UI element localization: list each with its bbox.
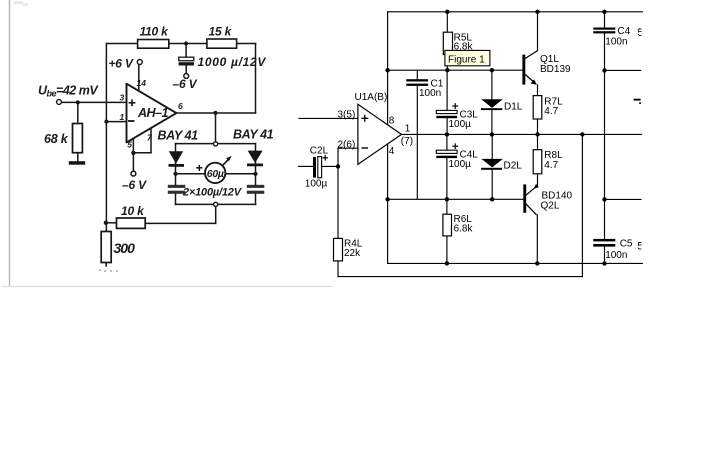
junction dots right — [336, 10, 607, 266]
svg-text:6: 6 — [178, 101, 183, 111]
svg-text:AH–1: AH–1 — [137, 106, 169, 120]
resistor 110k — [138, 40, 169, 49]
rectifier box wires — [106, 144, 256, 266]
wire Q1L emitter to R7L — [537, 85, 539, 96]
node y199 pin4 — [385, 197, 389, 201]
svg-text:10 k: 10 k — [121, 204, 145, 218]
node box top junction circle — [214, 142, 218, 146]
wire pin5 stub — [132, 135, 134, 153]
svg-text:D1L: D1L — [504, 102, 523, 113]
scan smudge top-left — [14, 1, 23, 4]
wire base rail y70 — [388, 69, 523, 71]
wire C4L bottom lead — [446, 158, 448, 199]
wire pin7 stub — [150, 126, 152, 153]
transistor Q2L — [523, 184, 526, 212]
svg-text:100µ: 100µ — [449, 119, 472, 130]
plus sign C4L — [452, 143, 458, 149]
svg-text:2(6): 2(6) — [338, 139, 356, 150]
wire meter left — [176, 173, 205, 175]
scan page edge vertical — [9, 0, 11, 286]
svg-text:–6 V: –6 V — [122, 178, 147, 192]
node y199 C4L — [445, 197, 449, 201]
diode BAY41 left — [169, 151, 183, 163]
node y263 R6L — [445, 261, 449, 265]
node divider junction — [184, 41, 188, 45]
resistor R8L — [533, 150, 542, 174]
capacitor 2x100u left plates — [168, 185, 186, 194]
node box bottom junction circle — [214, 202, 218, 206]
wire R6L top lead — [446, 199, 448, 214]
wire output rail — [401, 133, 641, 135]
op-amp AH-1 — [127, 84, 177, 143]
svg-text:110 k: 110 k — [140, 25, 170, 39]
svg-text:BAY 41: BAY 41 — [233, 127, 274, 141]
wire bootstrap vertical x582 — [581, 134, 583, 276]
svg-text:C4: C4 — [617, 26, 630, 37]
wire 68k bottom lead — [77, 153, 79, 162]
wire D1L bottom lead — [491, 110, 493, 134]
node y199 speaker — [602, 197, 606, 201]
svg-text:4: 4 — [389, 146, 395, 157]
wire output to rectifier box — [215, 113, 217, 142]
node y199 D2L — [490, 197, 494, 201]
svg-text:15 k: 15 k — [209, 25, 233, 39]
resistor 15k — [207, 39, 237, 48]
svg-text:+6 V: +6 V — [109, 57, 134, 71]
wire noninverting input 3(5) — [299, 117, 358, 119]
capacitor 1000u/12V plates — [179, 57, 194, 61]
op-amp minus sign — [362, 147, 369, 149]
svg-text:Figure 1: Figure 1 — [448, 55, 485, 66]
terminal -6V (top) — [184, 74, 189, 79]
node meter left junction — [173, 172, 177, 176]
wire 68k top lead — [77, 102, 79, 123]
capacitor C1 plates — [406, 79, 428, 86]
wire C2L left — [299, 165, 313, 167]
wire R8L top lead — [537, 134, 539, 149]
svg-text:4.7: 4.7 — [544, 160, 558, 171]
resistor 68k — [73, 124, 83, 153]
wire cap branch from divider — [185, 44, 187, 58]
svg-text:5: 5 — [127, 139, 132, 149]
wire C2L right — [322, 165, 338, 167]
node output junction — [213, 111, 217, 115]
svg-text:–6 V: –6 V — [173, 77, 198, 91]
wire R7L bottom lead — [537, 119, 539, 134]
meter 60u circle — [205, 163, 225, 183]
svg-text:8: 8 — [389, 116, 395, 127]
svg-text:22k: 22k — [344, 248, 361, 259]
wire box right — [255, 144, 257, 185]
left labels — [38, 25, 274, 257]
svg-text:100µ: 100µ — [449, 159, 472, 170]
svg-text:BAY 41: BAY 41 — [158, 129, 199, 143]
terminal +6V — [137, 60, 142, 65]
node input junction — [76, 100, 80, 104]
svg-text:1: 1 — [405, 124, 411, 135]
wire noninverting input — [61, 101, 126, 103]
wire box top — [176, 143, 256, 145]
svg-text:C2L: C2L — [310, 146, 329, 157]
Figure 1 tooltip — [445, 50, 490, 65]
wire pin8 vertical — [387, 12, 389, 125]
node out D1L-D2L — [490, 132, 494, 136]
op-amp plus sign — [361, 115, 368, 122]
node out R7L-R8L — [535, 132, 539, 136]
wire R8L bottom lead — [537, 174, 539, 186]
wire Q2L collector vertical — [536, 215, 538, 264]
svg-text:100n: 100n — [605, 250, 627, 261]
svg-text:6.8k: 6.8k — [454, 224, 474, 235]
node top rail R5L — [445, 10, 449, 14]
diode BAY41 right — [248, 151, 263, 163]
svg-text:3(5): 3(5) — [338, 110, 356, 121]
ground symbol cut — [634, 99, 641, 101]
wire inverting input 2(6) — [337, 148, 339, 166]
wire bootstrap bottom rail — [338, 276, 582, 278]
wire speaker column x604 — [604, 12, 606, 28]
svg-text:1: 1 — [120, 112, 125, 122]
svg-text:3: 3 — [120, 92, 125, 102]
wire R4L column — [337, 166, 339, 238]
RIGHT SCHEMATIC (crisp) — [299, 12, 643, 277]
ground — [69, 161, 85, 165]
terminal -6V (bottom) — [131, 171, 136, 176]
node pin1 junction — [104, 120, 108, 124]
wire box bottom to 10k — [215, 207, 217, 224]
resistor R5L — [443, 32, 452, 54]
op-amp U1A(B) — [358, 104, 402, 164]
node out C3L-C4L — [445, 132, 449, 136]
meter arrow — [223, 159, 230, 166]
wire +6V supply to pin 14 — [138, 65, 140, 93]
node y70 pin8 — [385, 68, 389, 72]
node y70 speaker — [602, 68, 606, 72]
svg-text:2×100µ/12V: 2×100µ/12V — [182, 186, 243, 198]
svg-text:300: 300 — [114, 240, 136, 256]
scan page edge bottom — [2, 286, 332, 288]
svg-text:60µ: 60µ — [207, 168, 224, 180]
svg-text:BD139: BD139 — [540, 64, 571, 75]
svg-text:100µ: 100µ — [305, 179, 328, 190]
resistor R6L — [443, 214, 452, 236]
wire output — [176, 112, 255, 114]
right labels — [305, 26, 644, 261]
wire speaker branch bottom — [605, 198, 642, 200]
pin number labels — [120, 78, 184, 149]
resistor R7L — [533, 96, 542, 119]
wire C3L bottom lead — [446, 118, 448, 134]
meter plus sign — [196, 165, 202, 171]
wire Q1L collector vertical — [537, 12, 539, 51]
wire 300 bottom stub — [105, 263, 107, 267]
svg-text:Q2L: Q2L — [541, 201, 560, 212]
op-amp minus sign — [128, 120, 135, 122]
wire R6L bottom lead — [446, 236, 448, 264]
op-amp plus sign — [129, 99, 136, 106]
diode D2L — [481, 159, 503, 168]
faint dots under 300 — [99, 269, 118, 272]
capacitor C4 plates — [593, 28, 615, 34]
capacitor C2L plates — [313, 157, 316, 178]
node y70 D1L — [490, 68, 494, 72]
plus sign C2L — [322, 155, 328, 161]
node top rail Q1L — [535, 10, 539, 14]
wire speaker branch top — [605, 69, 641, 71]
wire pin5-pin7 tie — [133, 152, 151, 154]
wire R5L top lead — [446, 12, 448, 32]
transistor Q1L — [522, 55, 525, 85]
wire top feedback rail — [106, 43, 255, 45]
capacitor 2x100u right plates — [247, 185, 264, 194]
node y263 Q2L — [535, 261, 539, 265]
svg-text:6.8k: 6.8k — [454, 42, 474, 53]
wire inverting input — [106, 121, 126, 123]
wire 10k left lead — [106, 222, 117, 224]
wire box bottom — [176, 203, 256, 205]
wire cap to -6V terminal — [185, 66, 187, 74]
capacitor C4L plates — [436, 150, 457, 153]
wire C3L top lead — [446, 70, 448, 110]
node C2L junction — [336, 164, 340, 168]
svg-text:4.7: 4.7 — [544, 106, 558, 117]
resistor R4L — [334, 238, 343, 261]
node meter right junction — [253, 172, 257, 176]
node pin5 junction — [131, 151, 135, 155]
wire base rail y199 — [388, 198, 524, 200]
wire D2L top lead — [491, 134, 493, 158]
terminal input — [57, 100, 62, 105]
resistor 10k — [117, 218, 146, 228]
svg-text:1000 µ/12V: 1000 µ/12V — [198, 55, 267, 69]
svg-text:(7): (7) — [401, 136, 413, 147]
svg-text:14: 14 — [137, 78, 147, 88]
wire top rail — [388, 11, 643, 13]
node y70 R5L — [445, 68, 449, 72]
svg-text:100n: 100n — [605, 37, 627, 48]
svg-text:100n: 100n — [419, 88, 441, 99]
wire meter right — [226, 173, 256, 175]
svg-text:U1A(B): U1A(B) — [355, 92, 388, 103]
wire bottom rail y263 — [388, 262, 643, 264]
wire D1L top lead — [491, 70, 493, 99]
wire left feedback vertical — [105, 44, 107, 232]
node top rail C4 — [602, 10, 606, 14]
wire R5L bottom lead — [446, 55, 448, 71]
wire pin4 vertical — [387, 144, 389, 263]
diode D1L — [481, 99, 502, 108]
node out bootstrap — [580, 132, 584, 136]
capacitor C3L plates — [436, 110, 457, 113]
svg-text:68 k: 68 k — [44, 132, 69, 146]
wire C1 corner — [416, 70, 418, 79]
wire box left — [175, 144, 177, 185]
wire C1 bottom / feedback vertical — [416, 86, 418, 199]
capacitor C5 plates — [593, 239, 615, 247]
LEFT SCHEMATIC (scanned) — [2, 0, 332, 287]
wire C4L top lead — [446, 134, 448, 150]
node 10k junction — [104, 221, 108, 225]
wire pin5 to -6V — [132, 153, 134, 171]
plus sign C3L — [452, 103, 458, 109]
resistor 300 — [101, 232, 111, 263]
svg-text:D2L: D2L — [504, 161, 523, 172]
wire D2L bottom lead — [491, 170, 493, 200]
wire right feedback vertical — [255, 44, 257, 114]
node y263 C5 — [602, 261, 606, 265]
svg-text:C5: C5 — [620, 239, 633, 250]
